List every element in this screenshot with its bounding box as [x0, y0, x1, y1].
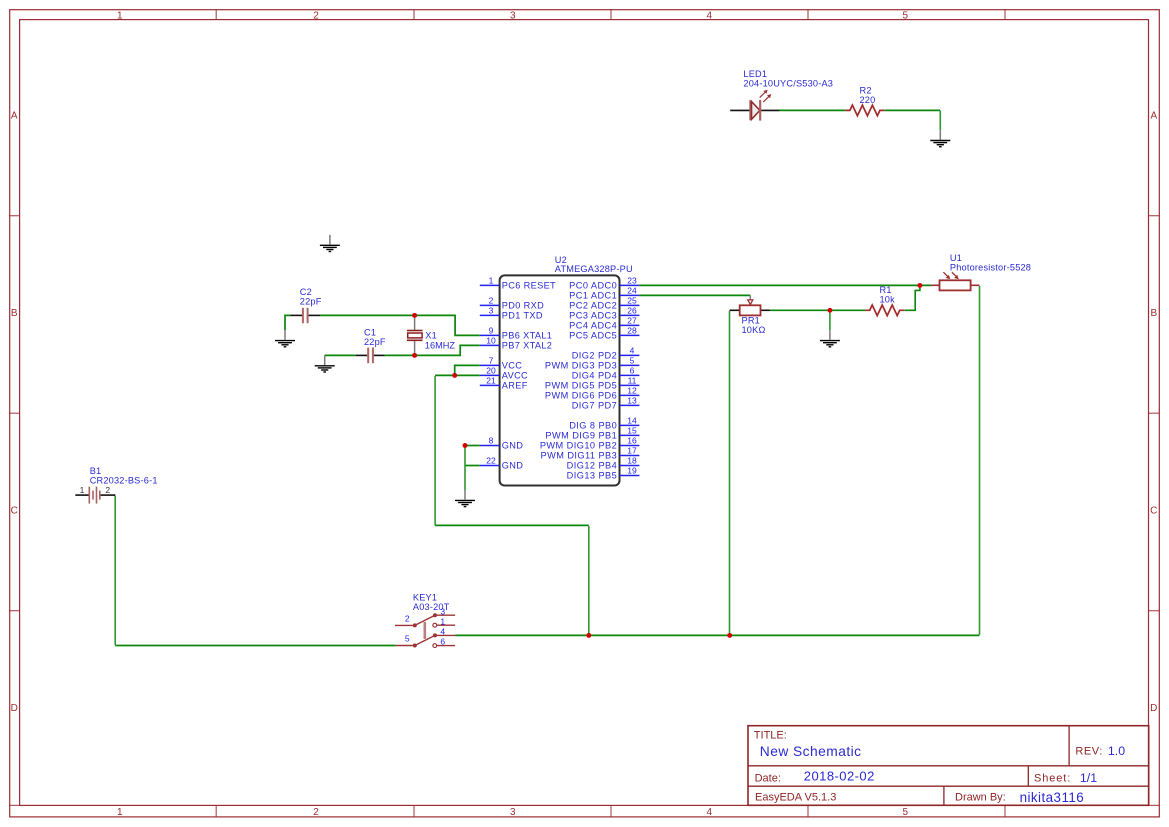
- svg-text:4: 4: [707, 807, 713, 818]
- svg-text:LED1: LED1: [743, 69, 767, 79]
- svg-text:PWM DIG5 PD5: PWM DIG5 PD5: [545, 381, 617, 391]
- svg-text:PD1 TXD: PD1 TXD: [502, 311, 543, 321]
- svg-text:PC5 ADC5: PC5 ADC5: [569, 331, 617, 341]
- svg-text:DIG4 PD4: DIG4 PD4: [572, 371, 617, 381]
- svg-text:X1: X1: [425, 331, 437, 341]
- svg-text:D: D: [11, 703, 18, 714]
- svg-text:5: 5: [903, 11, 909, 22]
- svg-text:AVCC: AVCC: [502, 371, 528, 381]
- svg-text:17: 17: [627, 446, 637, 456]
- svg-text:DIG7 PD7: DIG7 PD7: [572, 401, 617, 411]
- svg-text:14: 14: [627, 416, 637, 426]
- svg-text:PWM DIG11 PB3: PWM DIG11 PB3: [541, 451, 618, 461]
- svg-text:21: 21: [486, 376, 496, 386]
- svg-text:EasyEDA V5.1.3: EasyEDA V5.1.3: [755, 792, 836, 804]
- svg-text:27: 27: [627, 316, 637, 326]
- svg-text:VCC: VCC: [502, 361, 522, 371]
- svg-text:Drawn By:: Drawn By:: [955, 792, 1006, 804]
- svg-text:GND: GND: [502, 461, 523, 471]
- svg-text:22: 22: [486, 456, 496, 466]
- svg-text:7: 7: [489, 356, 494, 366]
- svg-text:5: 5: [405, 633, 410, 643]
- svg-text:1: 1: [117, 807, 123, 818]
- svg-text:PC2 ADC2: PC2 ADC2: [569, 301, 617, 311]
- svg-text:CR2032-BS-6-1: CR2032-BS-6-1: [90, 476, 158, 486]
- svg-text:ATMEGA328P-PU: ATMEGA328P-PU: [555, 264, 633, 274]
- svg-text:5: 5: [630, 356, 635, 366]
- svg-text:PC1 ADC1: PC1 ADC1: [569, 291, 617, 301]
- svg-text:PC4 ADC4: PC4 ADC4: [569, 321, 617, 331]
- svg-text:220: 220: [860, 95, 876, 105]
- svg-text:PC3 ADC3: PC3 ADC3: [569, 311, 617, 321]
- svg-text:DIG 8 PB0: DIG 8 PB0: [569, 421, 617, 431]
- svg-text:6: 6: [630, 366, 635, 376]
- svg-text:4: 4: [440, 627, 445, 637]
- svg-text:3: 3: [510, 807, 516, 818]
- svg-text:B: B: [1150, 308, 1157, 319]
- svg-text:20: 20: [486, 366, 496, 376]
- svg-text:PB6 XTAL1: PB6 XTAL1: [502, 331, 552, 341]
- svg-text:1/1: 1/1: [1080, 771, 1097, 785]
- svg-text:22pF: 22pF: [364, 337, 386, 347]
- svg-text:15: 15: [627, 426, 637, 436]
- svg-text:13: 13: [627, 396, 637, 406]
- svg-text:10k: 10k: [880, 295, 896, 305]
- svg-text:23: 23: [627, 276, 637, 286]
- svg-text:6: 6: [440, 637, 445, 647]
- svg-text:C2: C2: [300, 287, 312, 297]
- svg-text:12: 12: [627, 386, 637, 396]
- svg-text:2018-02-02: 2018-02-02: [804, 769, 875, 784]
- svg-text:New Schematic: New Schematic: [760, 744, 862, 759]
- svg-text:D: D: [1150, 703, 1157, 714]
- svg-text:24: 24: [627, 286, 637, 296]
- svg-text:3: 3: [489, 306, 494, 316]
- svg-text:AREF: AREF: [502, 381, 528, 391]
- svg-text:DIG12 PB4: DIG12 PB4: [567, 461, 618, 471]
- svg-text:REV:: REV:: [1075, 746, 1102, 758]
- svg-text:18: 18: [627, 456, 637, 466]
- svg-text:10KΩ: 10KΩ: [742, 325, 766, 335]
- svg-text:GND: GND: [502, 441, 523, 451]
- svg-text:PWM DIG10 PB2: PWM DIG10 PB2: [540, 441, 617, 451]
- svg-text:5: 5: [903, 807, 909, 818]
- svg-text:PC0 ADC0: PC0 ADC0: [569, 281, 617, 291]
- svg-text:C: C: [1150, 505, 1157, 516]
- svg-text:PD0 RXD: PD0 RXD: [502, 301, 544, 311]
- svg-text:2: 2: [313, 807, 319, 818]
- svg-text:B: B: [11, 308, 18, 319]
- svg-text:1.0: 1.0: [1108, 744, 1125, 758]
- svg-text:DIG13 PB5: DIG13 PB5: [567, 471, 618, 481]
- svg-text:4: 4: [707, 11, 713, 22]
- svg-text:TITLE:: TITLE:: [754, 729, 787, 741]
- svg-text:Sheet:: Sheet:: [1034, 773, 1071, 785]
- svg-text:11: 11: [628, 376, 637, 386]
- svg-text:22pF: 22pF: [300, 296, 322, 306]
- svg-text:1: 1: [440, 616, 445, 626]
- svg-text:10: 10: [486, 336, 496, 346]
- svg-text:PWM DIG9 PB1: PWM DIG9 PB1: [545, 431, 617, 441]
- svg-text:A: A: [1150, 111, 1157, 122]
- svg-text:16: 16: [627, 436, 637, 446]
- svg-text:DIG2 PD2: DIG2 PD2: [572, 351, 617, 361]
- svg-text:19: 19: [627, 466, 637, 476]
- svg-text:2: 2: [105, 485, 110, 495]
- svg-text:PB7 XTAL2: PB7 XTAL2: [502, 341, 552, 351]
- svg-text:16MHZ: 16MHZ: [425, 340, 456, 350]
- svg-text:8: 8: [489, 436, 494, 446]
- svg-text:28: 28: [627, 326, 637, 336]
- svg-text:2: 2: [489, 296, 494, 306]
- svg-text:nikita3116: nikita3116: [1020, 790, 1085, 805]
- svg-text:204-10UYC/S530-A3: 204-10UYC/S530-A3: [743, 78, 833, 88]
- svg-text:PWM DIG3 PD3: PWM DIG3 PD3: [545, 361, 617, 371]
- svg-text:3: 3: [440, 606, 445, 616]
- svg-text:Photoresistor-5528: Photoresistor-5528: [950, 263, 1031, 273]
- svg-text:1: 1: [80, 485, 85, 495]
- svg-text:25: 25: [627, 296, 637, 306]
- svg-text:9: 9: [489, 326, 494, 336]
- svg-text:2: 2: [313, 11, 319, 22]
- svg-text:PC6 RESET: PC6 RESET: [502, 281, 556, 291]
- svg-text:Date:: Date:: [755, 773, 781, 785]
- svg-text:C: C: [11, 505, 18, 516]
- svg-text:1: 1: [117, 11, 123, 22]
- svg-text:4: 4: [630, 346, 635, 356]
- svg-text:A: A: [11, 111, 18, 122]
- svg-text:26: 26: [627, 306, 637, 316]
- svg-text:2: 2: [405, 613, 410, 623]
- svg-text:1: 1: [489, 276, 494, 286]
- svg-text:3: 3: [510, 11, 516, 22]
- svg-text:PWM DIG6 PD6: PWM DIG6 PD6: [545, 391, 617, 401]
